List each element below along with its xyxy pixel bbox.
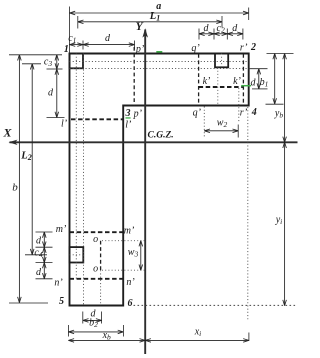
- svg-text:4: 4: [251, 107, 257, 118]
- dotted vertical inside square 2: [221, 54, 223, 68]
- svg-text:b: b: [12, 182, 18, 194]
- green mark at k' right: [241, 85, 251, 87]
- svg-text:p’: p’: [133, 109, 143, 120]
- svg-text:Y: Y: [136, 21, 144, 33]
- dotted vertical V3 (o column lower): [100, 270, 102, 305]
- dimension row d c2 d (top right): [199, 23, 243, 40]
- svg-text:c3: c3: [44, 57, 52, 69]
- svg-text:k’: k’: [233, 76, 241, 87]
- svg-text:l’: l’: [61, 119, 68, 130]
- dimension yi (far right lower): [275, 142, 285, 305]
- dimension b2 (bottom): [68, 318, 123, 337]
- green mark on flange top: [156, 51, 162, 53]
- dotted horizontal from point 6: [134, 304, 297, 306]
- svg-text:c1: c1: [68, 33, 76, 45]
- Y axis: [142, 28, 148, 354]
- dotted vertical V6 (w2 right extension): [238, 88, 240, 123]
- dimension row c1 d (top left): [68, 33, 134, 50]
- svg-text:xi: xi: [194, 327, 202, 339]
- svg-text:k’: k’: [203, 76, 211, 87]
- svg-text:c2: c2: [216, 23, 224, 35]
- dotted horizontal o lower extension: [102, 269, 147, 271]
- svg-text:L1: L1: [149, 11, 160, 23]
- svg-text:n’: n’: [54, 277, 63, 288]
- dimension L1: [78, 11, 222, 28]
- svg-text:c4: c4: [34, 248, 42, 260]
- junction label 3 (green underline): [125, 108, 131, 119]
- section outline: [70, 54, 249, 306]
- dimension xb (bottom): [68, 330, 145, 342]
- dimension d (right of flange): [250, 69, 268, 89]
- svg-text:r’: r’: [240, 43, 248, 54]
- dashed horizontal l': [71, 118, 123, 120]
- dimension L2 (left): [20, 64, 47, 255]
- dotted vertical V1 (left bar column center): [75, 54, 77, 280]
- dimension d (bottom): [83, 309, 102, 324]
- dimension w2: [204, 118, 238, 138]
- dashed vertical r': [242, 54, 244, 106]
- svg-text:5: 5: [59, 296, 64, 307]
- svg-text:xb: xb: [102, 330, 111, 342]
- svg-text:q’: q’: [191, 43, 200, 54]
- svg-text:yi: yi: [275, 215, 283, 227]
- dotted vertical V5 (w2 left extension): [203, 107, 205, 138]
- dashed vertical o-o: [100, 241, 102, 271]
- dotted vertical V7 (right edge extension down): [247, 107, 249, 321]
- svg-text:n’: n’: [126, 277, 135, 288]
- dimension c3 (left): [44, 55, 63, 69]
- svg-text:1: 1: [64, 44, 69, 55]
- svg-text:r’: r’: [240, 108, 248, 119]
- dimension b1 (right of flange): [260, 54, 294, 105]
- svg-text:o: o: [93, 234, 98, 245]
- svg-text:C.G.Z.: C.G.Z.: [148, 131, 174, 141]
- svg-text:w2: w2: [217, 118, 228, 130]
- dashed horizontal m': [70, 231, 124, 233]
- dashed vertical p': [133, 47, 135, 106]
- rebar square 3 (stem-left): [70, 247, 84, 262]
- dotted line A (through top rebar centers): [70, 61, 249, 63]
- dimension b (far left): [9, 55, 62, 303]
- svg-text:b1: b1: [260, 77, 269, 89]
- svg-text:b2: b2: [89, 318, 98, 330]
- svg-text:m’: m’: [56, 224, 67, 235]
- dotted vertical V2 (left cover line): [83, 54, 85, 306]
- dimension c4 (stem left): [34, 247, 52, 262]
- svg-text:m’: m’: [124, 226, 135, 237]
- dimension w3: [128, 241, 141, 271]
- dimension a: [69, 1, 248, 53]
- rebar square 1 (top-left): [70, 54, 84, 69]
- dashed vertical q': [198, 54, 200, 106]
- dotted vertical V4 (below top-middle square): [217, 68, 219, 106]
- svg-text:a: a: [156, 1, 161, 12]
- dotted horizontal o upper extension: [102, 240, 147, 242]
- dimension d (stem left lower): [36, 263, 53, 279]
- svg-text:o: o: [93, 264, 98, 275]
- dimension yb (far right upper): [274, 54, 285, 143]
- svg-text:X: X: [2, 126, 12, 140]
- rebar square 2 (top-middle): [215, 54, 228, 68]
- dotted line B (depth d level): [70, 68, 253, 70]
- dotted horizontal inside square 3: [70, 254, 85, 256]
- dashed horizontal n': [70, 278, 124, 280]
- svg-text:yb: yb: [274, 108, 283, 120]
- X axis: [9, 140, 298, 145]
- dashed horizontal k': [199, 86, 243, 88]
- svg-text:L2: L2: [20, 151, 31, 163]
- dimension xi (bottom right): [145, 327, 249, 342]
- svg-text:6: 6: [128, 298, 133, 309]
- svg-text:q’: q’: [193, 108, 202, 119]
- svg-text:p’: p’: [135, 44, 145, 55]
- svg-text:2: 2: [250, 42, 256, 53]
- svg-text:l’: l’: [125, 120, 132, 131]
- dimension d (left upper): [47, 69, 65, 118]
- dimension d (stem left upper): [36, 232, 53, 247]
- svg-text:w3: w3: [128, 247, 139, 258]
